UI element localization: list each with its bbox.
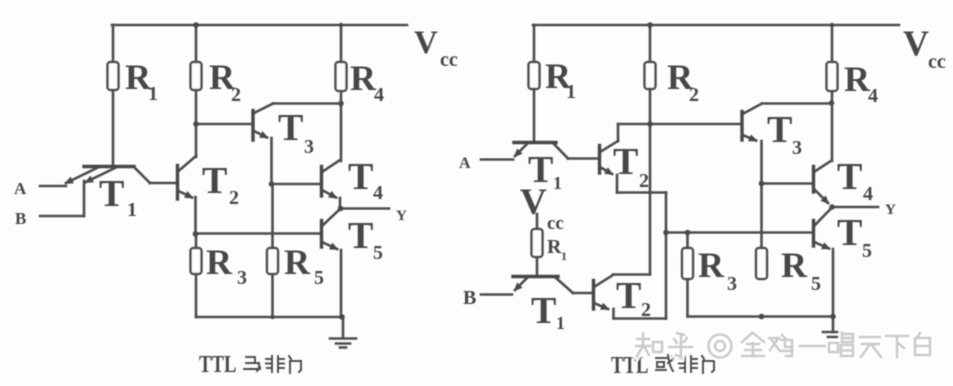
svg-text:5: 5 bbox=[314, 267, 324, 289]
svg-text:2: 2 bbox=[639, 170, 649, 192]
svg-text:A: A bbox=[459, 155, 471, 172]
svg-text:V: V bbox=[520, 182, 547, 223]
svg-text:1: 1 bbox=[127, 199, 137, 221]
svg-text:1: 1 bbox=[566, 81, 576, 103]
svg-text:1: 1 bbox=[148, 83, 158, 105]
svg-text:cc: cc bbox=[928, 51, 946, 73]
svg-text:R: R bbox=[350, 58, 377, 98]
svg-text:T: T bbox=[531, 290, 556, 332]
svg-text:T: T bbox=[767, 109, 792, 151]
svg-text:4: 4 bbox=[863, 183, 873, 205]
svg-text:TTL: TTL bbox=[199, 351, 236, 378]
svg-text:5: 5 bbox=[811, 273, 821, 295]
svg-text:3: 3 bbox=[792, 137, 802, 159]
svg-text:3: 3 bbox=[304, 136, 314, 158]
svg-text:T: T bbox=[99, 173, 124, 215]
svg-text:R: R bbox=[698, 245, 725, 285]
svg-text:A: A bbox=[14, 179, 27, 198]
svg-text:T: T bbox=[837, 212, 862, 254]
svg-text:R: R bbox=[844, 59, 871, 99]
svg-text:T: T bbox=[348, 215, 373, 257]
svg-text:R: R bbox=[284, 242, 311, 282]
svg-text:B: B bbox=[463, 287, 476, 309]
svg-text:2: 2 bbox=[689, 84, 699, 106]
svg-text:1: 1 bbox=[561, 249, 567, 263]
svg-text:T: T bbox=[348, 156, 373, 198]
svg-text:V: V bbox=[903, 23, 929, 63]
svg-text:V: V bbox=[414, 25, 438, 61]
svg-text:cc: cc bbox=[440, 49, 458, 71]
svg-text:4: 4 bbox=[374, 84, 384, 106]
svg-text:T: T bbox=[616, 275, 641, 317]
svg-text:3: 3 bbox=[237, 267, 247, 289]
svg-text:T: T bbox=[837, 156, 862, 198]
svg-text:R: R bbox=[547, 236, 562, 258]
svg-text:1: 1 bbox=[553, 173, 562, 193]
svg-text:4: 4 bbox=[868, 85, 878, 107]
svg-text:2: 2 bbox=[229, 187, 239, 209]
svg-text:R: R bbox=[206, 242, 233, 282]
svg-text:T: T bbox=[202, 160, 227, 202]
svg-text:5: 5 bbox=[862, 240, 872, 262]
svg-text:B: B bbox=[15, 209, 26, 228]
svg-text:Y: Y bbox=[885, 202, 896, 218]
svg-text:Y: Y bbox=[396, 208, 407, 224]
svg-text:3: 3 bbox=[727, 273, 737, 295]
svg-text:4: 4 bbox=[373, 182, 383, 204]
svg-text:5: 5 bbox=[373, 242, 383, 264]
svg-text:R: R bbox=[781, 245, 808, 285]
svg-text:T: T bbox=[613, 141, 638, 183]
svg-text:T: T bbox=[278, 107, 303, 149]
svg-text:1: 1 bbox=[556, 313, 565, 333]
svg-text:cc: cc bbox=[547, 213, 564, 234]
svg-text:2: 2 bbox=[231, 84, 241, 106]
svg-text:TTL: TTL bbox=[611, 352, 648, 379]
svg-text:2: 2 bbox=[641, 299, 651, 321]
